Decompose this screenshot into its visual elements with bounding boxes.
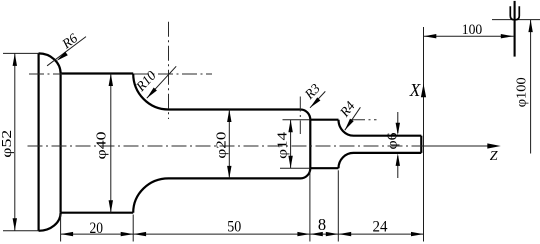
tool left prong bbox=[510, 6, 514, 19]
svg-text:φ20: φ20 bbox=[214, 131, 229, 158]
tool tip reference line bbox=[492, 19, 540, 21]
R4 bottom fillet bbox=[339, 153, 354, 168]
phi20 bottom line bbox=[169, 177, 301, 179]
phi14 bottom extension line bbox=[280, 167, 310, 169]
dim 100 line bbox=[424, 35, 514, 37]
main axis centerline bbox=[28, 145, 424, 147]
phi40 dimension line bbox=[110, 74, 112, 213]
R6 R10 center line bbox=[29, 73, 212, 75]
phi52 top extension line bbox=[3, 52, 39, 54]
dim 20 left arrow bbox=[61, 232, 74, 236]
dim 8 right arrow bbox=[326, 232, 339, 236]
bottom dimension line bbox=[61, 233, 424, 235]
svg-text:50: 50 bbox=[227, 219, 241, 236]
phi6 top arrow bbox=[396, 123, 400, 136]
phi6 top dimension line bbox=[397, 112, 399, 133]
phi52 top arrow bbox=[13, 53, 17, 66]
dim 50 right arrow bbox=[297, 232, 310, 236]
dim 8 left arrow bbox=[310, 232, 323, 236]
R10 top fillet bbox=[133, 74, 168, 110]
phi6 bottom line bbox=[354, 152, 422, 154]
phi20 top arrow bbox=[227, 110, 231, 123]
svg-text:R6: R6 bbox=[58, 30, 80, 52]
R10 vertical center line bbox=[168, 22, 170, 119]
dim 100 right arrow bbox=[501, 34, 514, 38]
dim 100 left arrow bbox=[424, 34, 437, 38]
R4 center line bbox=[350, 119, 377, 121]
phi14 top extension line bbox=[283, 119, 311, 121]
svg-text:24: 24 bbox=[373, 219, 388, 236]
R3 leader line bbox=[310, 91, 325, 107]
R10 leader arrow bbox=[147, 88, 157, 99]
R3 leader arrow bbox=[310, 97, 320, 107]
dim 50 left arrow bbox=[134, 232, 147, 236]
R3 bottom corner arc bbox=[301, 168, 311, 178]
R10 bottom fillet bbox=[133, 178, 168, 212]
step face phi20 to phi14 bbox=[309, 120, 311, 169]
right end face phi6 bbox=[420, 136, 422, 153]
svg-text:φ14: φ14 bbox=[275, 132, 290, 159]
dim 20 right arrow bbox=[121, 232, 134, 236]
svg-text:X: X bbox=[409, 80, 421, 100]
R6 leader line bbox=[47, 37, 86, 66]
R4 leader arrow bbox=[345, 119, 354, 131]
left end face phi52 bbox=[37, 53, 39, 230]
svg-text:φ52: φ52 bbox=[0, 130, 14, 158]
ext line at x310 bbox=[309, 171, 311, 242]
phi52 bottom extension line bbox=[3, 230, 39, 232]
svg-text:R3: R3 bbox=[301, 80, 323, 102]
phi52 dimension line bbox=[14, 53, 16, 230]
phi40 top arrow bbox=[109, 74, 113, 87]
phi14 bottom arrow bbox=[288, 156, 292, 169]
svg-text:φ6: φ6 bbox=[385, 132, 400, 149]
svg-text:φ40: φ40 bbox=[93, 131, 108, 159]
phi14 bottom line bbox=[310, 167, 338, 169]
phi52 bottom arrow bbox=[13, 218, 17, 231]
dim 24 right arrow bbox=[411, 232, 424, 236]
R3 top corner arc bbox=[301, 110, 311, 120]
tool right prong bbox=[515, 6, 519, 19]
svg-text:R4: R4 bbox=[336, 98, 358, 120]
phi20 bottom arrow bbox=[227, 166, 231, 179]
phi100 top arrow bbox=[528, 20, 532, 32]
phi6 top line bbox=[354, 135, 422, 137]
ext line at x60 bbox=[60, 214, 62, 242]
R6 leader arrow bbox=[57, 52, 68, 61]
svg-text:100: 100 bbox=[462, 22, 483, 38]
phi6 bottom dimension line bbox=[397, 156, 399, 178]
R4 leader line bbox=[345, 107, 361, 130]
phi20 dimension line bbox=[228, 110, 230, 179]
R6 top arc bbox=[39, 53, 61, 73]
X axis arrowhead bbox=[421, 84, 426, 98]
phi20 top line bbox=[169, 108, 301, 110]
dim 24 left arrow bbox=[339, 232, 352, 236]
phi14 top arrow bbox=[288, 120, 292, 133]
phi100 dimension line bbox=[530, 20, 532, 154]
svg-text:φ100: φ100 bbox=[514, 77, 529, 107]
R4 top fillet bbox=[339, 120, 354, 136]
R6 bottom arc bbox=[39, 213, 61, 231]
phi40 top line bbox=[61, 72, 134, 74]
ext line at x338 bbox=[337, 170, 339, 241]
phi14 top line bbox=[310, 119, 338, 121]
phi14 dimension line bbox=[290, 120, 292, 169]
Z axis arrowhead bbox=[487, 143, 501, 148]
ext line at x133 bbox=[132, 215, 134, 242]
phi40 bottom arrow bbox=[109, 200, 113, 213]
R3 vertical center line bbox=[299, 97, 301, 135]
phi6 bottom arrow bbox=[396, 153, 400, 166]
phi40 bottom line bbox=[61, 212, 134, 214]
flange right face bbox=[59, 74, 61, 213]
svg-text:Z: Z bbox=[490, 149, 498, 164]
X axis and extension line bbox=[423, 27, 425, 242]
R10 leader line bbox=[147, 66, 176, 98]
tool shank bbox=[514, 1, 516, 57]
Z axis line bbox=[424, 145, 490, 147]
svg-text:8: 8 bbox=[318, 215, 326, 234]
svg-text:20: 20 bbox=[90, 220, 104, 237]
